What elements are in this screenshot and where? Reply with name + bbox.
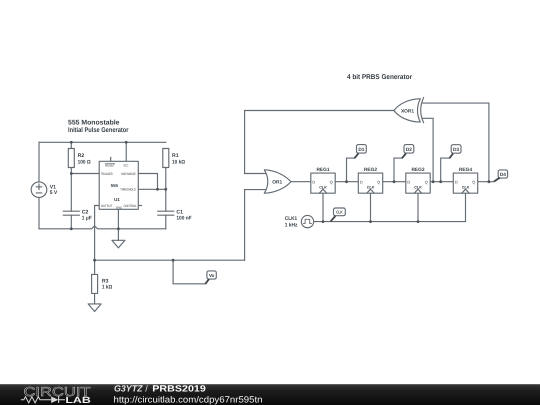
junction: REG1 Q/D1: [345, 180, 348, 183]
op-amp: 555 timer U1 body: [99, 161, 138, 209]
wire: D2 riser: [394, 158, 402, 182]
register REG3 box: [406, 173, 430, 193]
wire: C2 bottom to ground rail: [70, 215, 72, 229]
flag tail D4: [494, 178, 500, 182]
wire: top supply rail: [39, 141, 166, 143]
wire: R2 bottom to C2 top: [70, 168, 72, 212]
junction: clock/REG3: [417, 220, 420, 223]
wire: CONTROL pin stub: [138, 205, 141, 207]
svg-text:CLK: CLK: [336, 210, 343, 215]
footer bar: [0, 384, 540, 405]
svg-text:Initial Pulse Generator: Initial Pulse Generator: [68, 127, 129, 134]
wire: XOR1 upper input from REG4 Q: [423, 103, 489, 182]
wire: DISCHARGE to threshold node: [138, 174, 157, 190]
wire: XOR1 output feedback to OR1 top input: [245, 111, 394, 174]
flag tail D3: [449, 154, 453, 159]
junction: clock/REG1: [322, 220, 325, 223]
svg-text:THRESHOLD: THRESHOLD: [120, 188, 136, 192]
flag Vo: [207, 271, 216, 279]
ground symbol at 555 GND: [112, 240, 125, 248]
wire: REG4 Q to D4 flag: [478, 181, 494, 183]
svg-text:10 kΩ: 10 kΩ: [172, 159, 185, 165]
junction: discharge/threshold: [156, 188, 159, 191]
wire: V1 bottom to ground rail: [38, 197, 40, 228]
svg-text:Q: Q: [472, 180, 475, 185]
svg-text:D4: D4: [500, 172, 506, 178]
resistor R1: [163, 149, 169, 168]
xor-gate XOR1 input arc: [421, 98, 424, 123]
wire: R2 top lead: [70, 142, 72, 148]
svg-text:Vo: Vo: [209, 273, 215, 278]
svg-text:REG1: REG1: [316, 167, 329, 173]
flag tail D2: [402, 153, 406, 158]
wire: ground rail with hop over output wire: [39, 226, 166, 229]
junction: output/R3: [93, 259, 96, 262]
svg-text:PRBS2019: PRBS2019: [152, 384, 206, 394]
register REG4 box: [453, 173, 477, 193]
flag D3: [451, 145, 461, 154]
svg-text:XOR1: XOR1: [401, 108, 414, 114]
svg-text:Q: Q: [377, 180, 380, 185]
xor-gate XOR1 body (mirrored): [394, 99, 420, 122]
wire: VCC pin to rail: [125, 142, 127, 161]
wire: D3 riser: [441, 158, 450, 182]
flag CLK: [334, 208, 346, 216]
wire: ground stub below rail: [117, 229, 119, 241]
wire: R3 bottom lead: [94, 293, 96, 304]
wire: OUTPUT pin down: [95, 206, 100, 261]
svg-text:RESET: RESET: [105, 164, 115, 168]
junction: REG3 Q/D3: [439, 180, 442, 183]
wire: clock trunk: [314, 193, 466, 221]
svg-text:VCC: VCC: [123, 164, 129, 168]
junction: clock/REG2: [369, 220, 372, 223]
junction: C2/ground rail: [70, 227, 73, 230]
wire: XOR1 lower input from REG3 Q: [423, 118, 434, 181]
wire: OR1 lower input riser: [245, 190, 267, 261]
junction: REG2 Q/D2: [393, 180, 396, 183]
svg-text:D1: D1: [358, 147, 364, 153]
svg-text:D: D: [455, 180, 458, 185]
svg-text:http://circuitlab.com/cdpy67nr: http://circuitlab.com/cdpy67nr595tn: [114, 394, 263, 404]
footer logo resistor zigzag: [21, 397, 51, 403]
junction: trigger/R2-C2: [70, 172, 73, 175]
wire: V1 top to supply rail: [38, 142, 40, 182]
svg-text:DISCHARGE: DISCHARGE: [121, 172, 136, 176]
flag tail CLK: [331, 216, 336, 221]
svg-text:GND: GND: [116, 205, 122, 209]
svg-text:Q: Q: [425, 180, 428, 185]
wire: D1 riser: [347, 158, 355, 182]
svg-text:R3: R3: [102, 278, 109, 284]
wire: R3 top lead: [94, 260, 96, 274]
svg-text:D3: D3: [453, 147, 459, 153]
svg-text:REG4: REG4: [459, 167, 472, 173]
register REG2 box: [358, 173, 382, 193]
wire: 555 GND pin to rail: [117, 209, 119, 229]
junction: REG3 Q/XOR input: [432, 180, 435, 183]
svg-text:CLK: CLK: [367, 185, 375, 189]
svg-text:D2: D2: [406, 147, 412, 153]
resistor R2: [68, 149, 74, 168]
svg-text:5 V: 5 V: [50, 190, 58, 196]
wire: output node horizontal: [95, 259, 245, 261]
wire: Vo branch: [173, 260, 205, 284]
register REG1 box: [311, 173, 335, 193]
svg-text:100 Ω: 100 Ω: [78, 159, 91, 165]
wire: REG2 Q to REG3 D: [383, 181, 406, 183]
flag D2: [404, 145, 414, 154]
svg-text:OR1: OR1: [272, 179, 282, 185]
wire: REG1 clock riser: [322, 193, 324, 221]
junction: threshold/R1-C1: [164, 188, 167, 191]
svg-text:R2: R2: [78, 153, 85, 159]
flag tail D1: [354, 153, 358, 158]
wire: REG1 Q to REG2 D: [335, 181, 358, 183]
svg-text:D: D: [360, 180, 363, 185]
flag tail Vo: [205, 279, 209, 284]
flag D1: [357, 145, 367, 154]
wire: TRIGGER net: [71, 173, 99, 175]
wire: REG2 clock riser: [370, 193, 372, 221]
or-gate OR1: [264, 170, 291, 193]
voltage source V1: [31, 182, 47, 198]
footer logo diode: [51, 397, 58, 404]
svg-text:REG3: REG3: [411, 167, 424, 173]
resistor R3: [92, 274, 98, 293]
svg-text:TRIGGER: TRIGGER: [101, 172, 113, 176]
svg-text:1 kHz: 1 kHz: [285, 222, 298, 228]
svg-text:CLK1: CLK1: [285, 216, 298, 222]
wire: REG3 Q to REG4 D: [430, 181, 453, 183]
wire: OR1 output to REG1 D: [291, 181, 311, 183]
svg-text:D: D: [407, 180, 410, 185]
svg-text:Q: Q: [330, 180, 333, 185]
svg-text:4 bit PRBS Generator: 4 bit PRBS Generator: [347, 74, 412, 81]
junction: output/Vo branch: [172, 259, 175, 262]
svg-text:CONTROL: CONTROL: [124, 204, 137, 208]
svg-text:G3YTZ: G3YTZ: [114, 384, 143, 394]
svg-text:1 µF: 1 µF: [82, 216, 92, 222]
ground symbol below R3: [88, 304, 101, 312]
junction: REG4 Q/XOR input: [488, 180, 491, 183]
svg-text:REG2: REG2: [364, 167, 377, 173]
junction: GND pin/ground rail: [117, 227, 120, 230]
wire: THRESHOLD net: [138, 188, 166, 190]
svg-text:U1: U1: [114, 197, 120, 202]
svg-text:C2: C2: [82, 209, 89, 215]
svg-text:100 nF: 100 nF: [176, 216, 191, 222]
junction: rail/R2: [70, 141, 73, 144]
capacitor C2: [63, 211, 79, 215]
flag D4: [498, 170, 507, 178]
svg-text:555: 555: [111, 183, 119, 188]
svg-text:R1: R1: [172, 153, 179, 159]
svg-text:555 Monostable: 555 Monostable: [68, 119, 120, 126]
svg-text:1 kΩ: 1 kΩ: [102, 285, 112, 291]
clock source CLK1: [301, 215, 313, 227]
wire: C1 bottom to ground rail: [165, 215, 167, 229]
svg-text:D: D: [312, 180, 315, 185]
svg-text:OUTPUT: OUTPUT: [101, 204, 113, 208]
svg-text:CLK: CLK: [414, 185, 422, 189]
svg-text:C1: C1: [176, 209, 183, 215]
wire: RESET pin stub: [110, 157, 112, 161]
svg-text:CLK: CLK: [319, 185, 327, 189]
svg-text:LAB: LAB: [65, 395, 91, 405]
junction: rail/VCC: [125, 141, 128, 144]
svg-text:CLK: CLK: [462, 185, 470, 189]
wire: REG3 clock riser: [417, 193, 419, 221]
wire: R1 bottom to C1 top: [165, 168, 167, 212]
capacitor C1: [158, 211, 174, 215]
